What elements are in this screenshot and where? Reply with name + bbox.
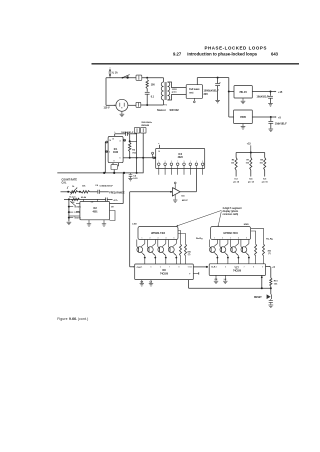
svg-text:6: 6 bbox=[74, 216, 75, 218]
svg-text:LSD: LSD bbox=[132, 224, 137, 226]
svg-text:74C926: 74C926 bbox=[160, 272, 169, 275]
svg-text:pin 14: pin 14 bbox=[233, 181, 240, 184]
svg-text:74C926: 74C926 bbox=[233, 270, 242, 273]
svg-text:1: 1 bbox=[190, 161, 191, 163]
svg-text:5: 5 bbox=[74, 212, 75, 214]
svg-text:SW 632: SW 632 bbox=[170, 108, 180, 112]
svg-text:3: 3 bbox=[165, 161, 166, 163]
svg-text:Introduction to phase-locked l: Introduction to phase-locked loops bbox=[187, 52, 257, 57]
svg-text:5: 5 bbox=[225, 266, 226, 268]
svg-text:Stancor: Stancor bbox=[157, 109, 166, 112]
svg-text:9: 9 bbox=[188, 266, 189, 268]
svg-text:2N5248: 2N5248 bbox=[141, 124, 149, 127]
svg-text:9.66.: 9.66. bbox=[69, 317, 77, 321]
svg-text:16: 16 bbox=[158, 151, 160, 153]
svg-text:1: 1 bbox=[142, 237, 143, 239]
svg-text:3: 3 bbox=[158, 237, 159, 239]
svg-text:3: 3 bbox=[109, 152, 110, 154]
svg-text:3: 3 bbox=[230, 237, 231, 239]
svg-text:display (photo: display (photo bbox=[223, 210, 239, 213]
svg-text:6, 1A: 6, 1A bbox=[112, 72, 118, 75]
svg-text:115V: 115V bbox=[172, 89, 178, 91]
svg-text:390.00kHz: 390.00kHz bbox=[141, 122, 152, 124]
svg-text:prim: prim bbox=[172, 92, 177, 94]
svg-text:40107: 40107 bbox=[182, 199, 189, 202]
svg-text:4001: 4001 bbox=[92, 210, 98, 213]
svg-text:(cont.): (cont.) bbox=[78, 317, 89, 321]
svg-text:HP5082-7404: HP5082-7404 bbox=[151, 232, 166, 235]
svg-text:1: 1 bbox=[214, 237, 215, 239]
svg-text:4: 4 bbox=[120, 139, 121, 142]
svg-text:8: 8 bbox=[178, 266, 179, 268]
svg-text:9.27: 9.27 bbox=[173, 52, 182, 57]
svg-text:MSD: MSD bbox=[244, 224, 249, 226]
svg-text:78L15: 78L15 bbox=[239, 90, 247, 94]
svg-text:Ra-Rg: Ra-Rg bbox=[266, 239, 273, 241]
svg-text:10&#181;F: 10&#181;F bbox=[275, 122, 287, 125]
svg-text:643: 643 bbox=[271, 52, 279, 57]
svg-text:6: 6 bbox=[160, 266, 161, 268]
svg-text:PHASE-LOCKED LOOPS: PHASE-LOCKED LOOPS bbox=[204, 45, 267, 50]
svg-text:CAL: CAL bbox=[62, 182, 67, 185]
svg-text:10&#181;F: 10&#181;F bbox=[257, 96, 269, 99]
svg-text:FREQ RANGE: FREQ RANGE bbox=[109, 192, 125, 195]
svg-text:rect: rect bbox=[189, 91, 193, 94]
svg-text:8: 8 bbox=[253, 266, 254, 268]
svg-text:100&#181;F: 100&#181;F bbox=[121, 132, 134, 134]
svg-text:10-turn: 10-turn bbox=[69, 196, 77, 199]
svg-text:Full wave: Full wave bbox=[189, 89, 200, 91]
svg-text:6: 6 bbox=[234, 266, 235, 268]
svg-text:110 V: 110 V bbox=[104, 106, 111, 109]
svg-text:7: 7 bbox=[244, 266, 245, 268]
svg-text:9: 9 bbox=[262, 266, 263, 268]
svg-text:4046: 4046 bbox=[113, 151, 119, 154]
svg-text:common cath): common cath) bbox=[223, 213, 239, 216]
svg-text:7805: 7805 bbox=[240, 115, 246, 119]
svg-text:0.068&#181;F: 0.068&#181;F bbox=[100, 186, 114, 188]
svg-text:1: 1 bbox=[158, 161, 159, 163]
svg-text:4-digit 7-segment: 4-digit 7-segment bbox=[223, 207, 242, 210]
svg-text:Ra-Rg: Ra-Rg bbox=[196, 238, 203, 240]
svg-text:60.4k: 60.4k bbox=[81, 196, 87, 199]
svg-text:100: 100 bbox=[151, 84, 156, 87]
svg-text:16: 16 bbox=[112, 139, 114, 141]
svg-text:(7): (7) bbox=[188, 254, 191, 256]
svg-text:(7): (7) bbox=[268, 253, 271, 255]
svg-text:2: 2 bbox=[150, 237, 151, 239]
svg-text:5: 5 bbox=[174, 237, 175, 239]
svg-text:5: 5 bbox=[151, 266, 152, 268]
svg-text:8: 8 bbox=[114, 161, 115, 163]
svg-text:30V: 30V bbox=[204, 93, 209, 96]
svg-text:HP5082-7404: HP5082-7404 bbox=[224, 232, 239, 235]
svg-text:pin 14: pin 14 bbox=[248, 181, 255, 184]
svg-text:pin 16: pin 16 bbox=[262, 182, 269, 184]
svg-text:2: 2 bbox=[222, 237, 223, 239]
svg-text:7: 7 bbox=[169, 266, 170, 268]
svg-text:14: 14 bbox=[109, 139, 111, 142]
svg-text:5: 5 bbox=[246, 237, 247, 239]
svg-text:RESET: RESET bbox=[254, 297, 262, 299]
svg-text:4026: 4026 bbox=[178, 156, 184, 159]
svg-text:5: 5 bbox=[120, 157, 121, 159]
svg-text:Figure: Figure bbox=[57, 317, 68, 321]
svg-text:+15: +15 bbox=[278, 91, 283, 94]
